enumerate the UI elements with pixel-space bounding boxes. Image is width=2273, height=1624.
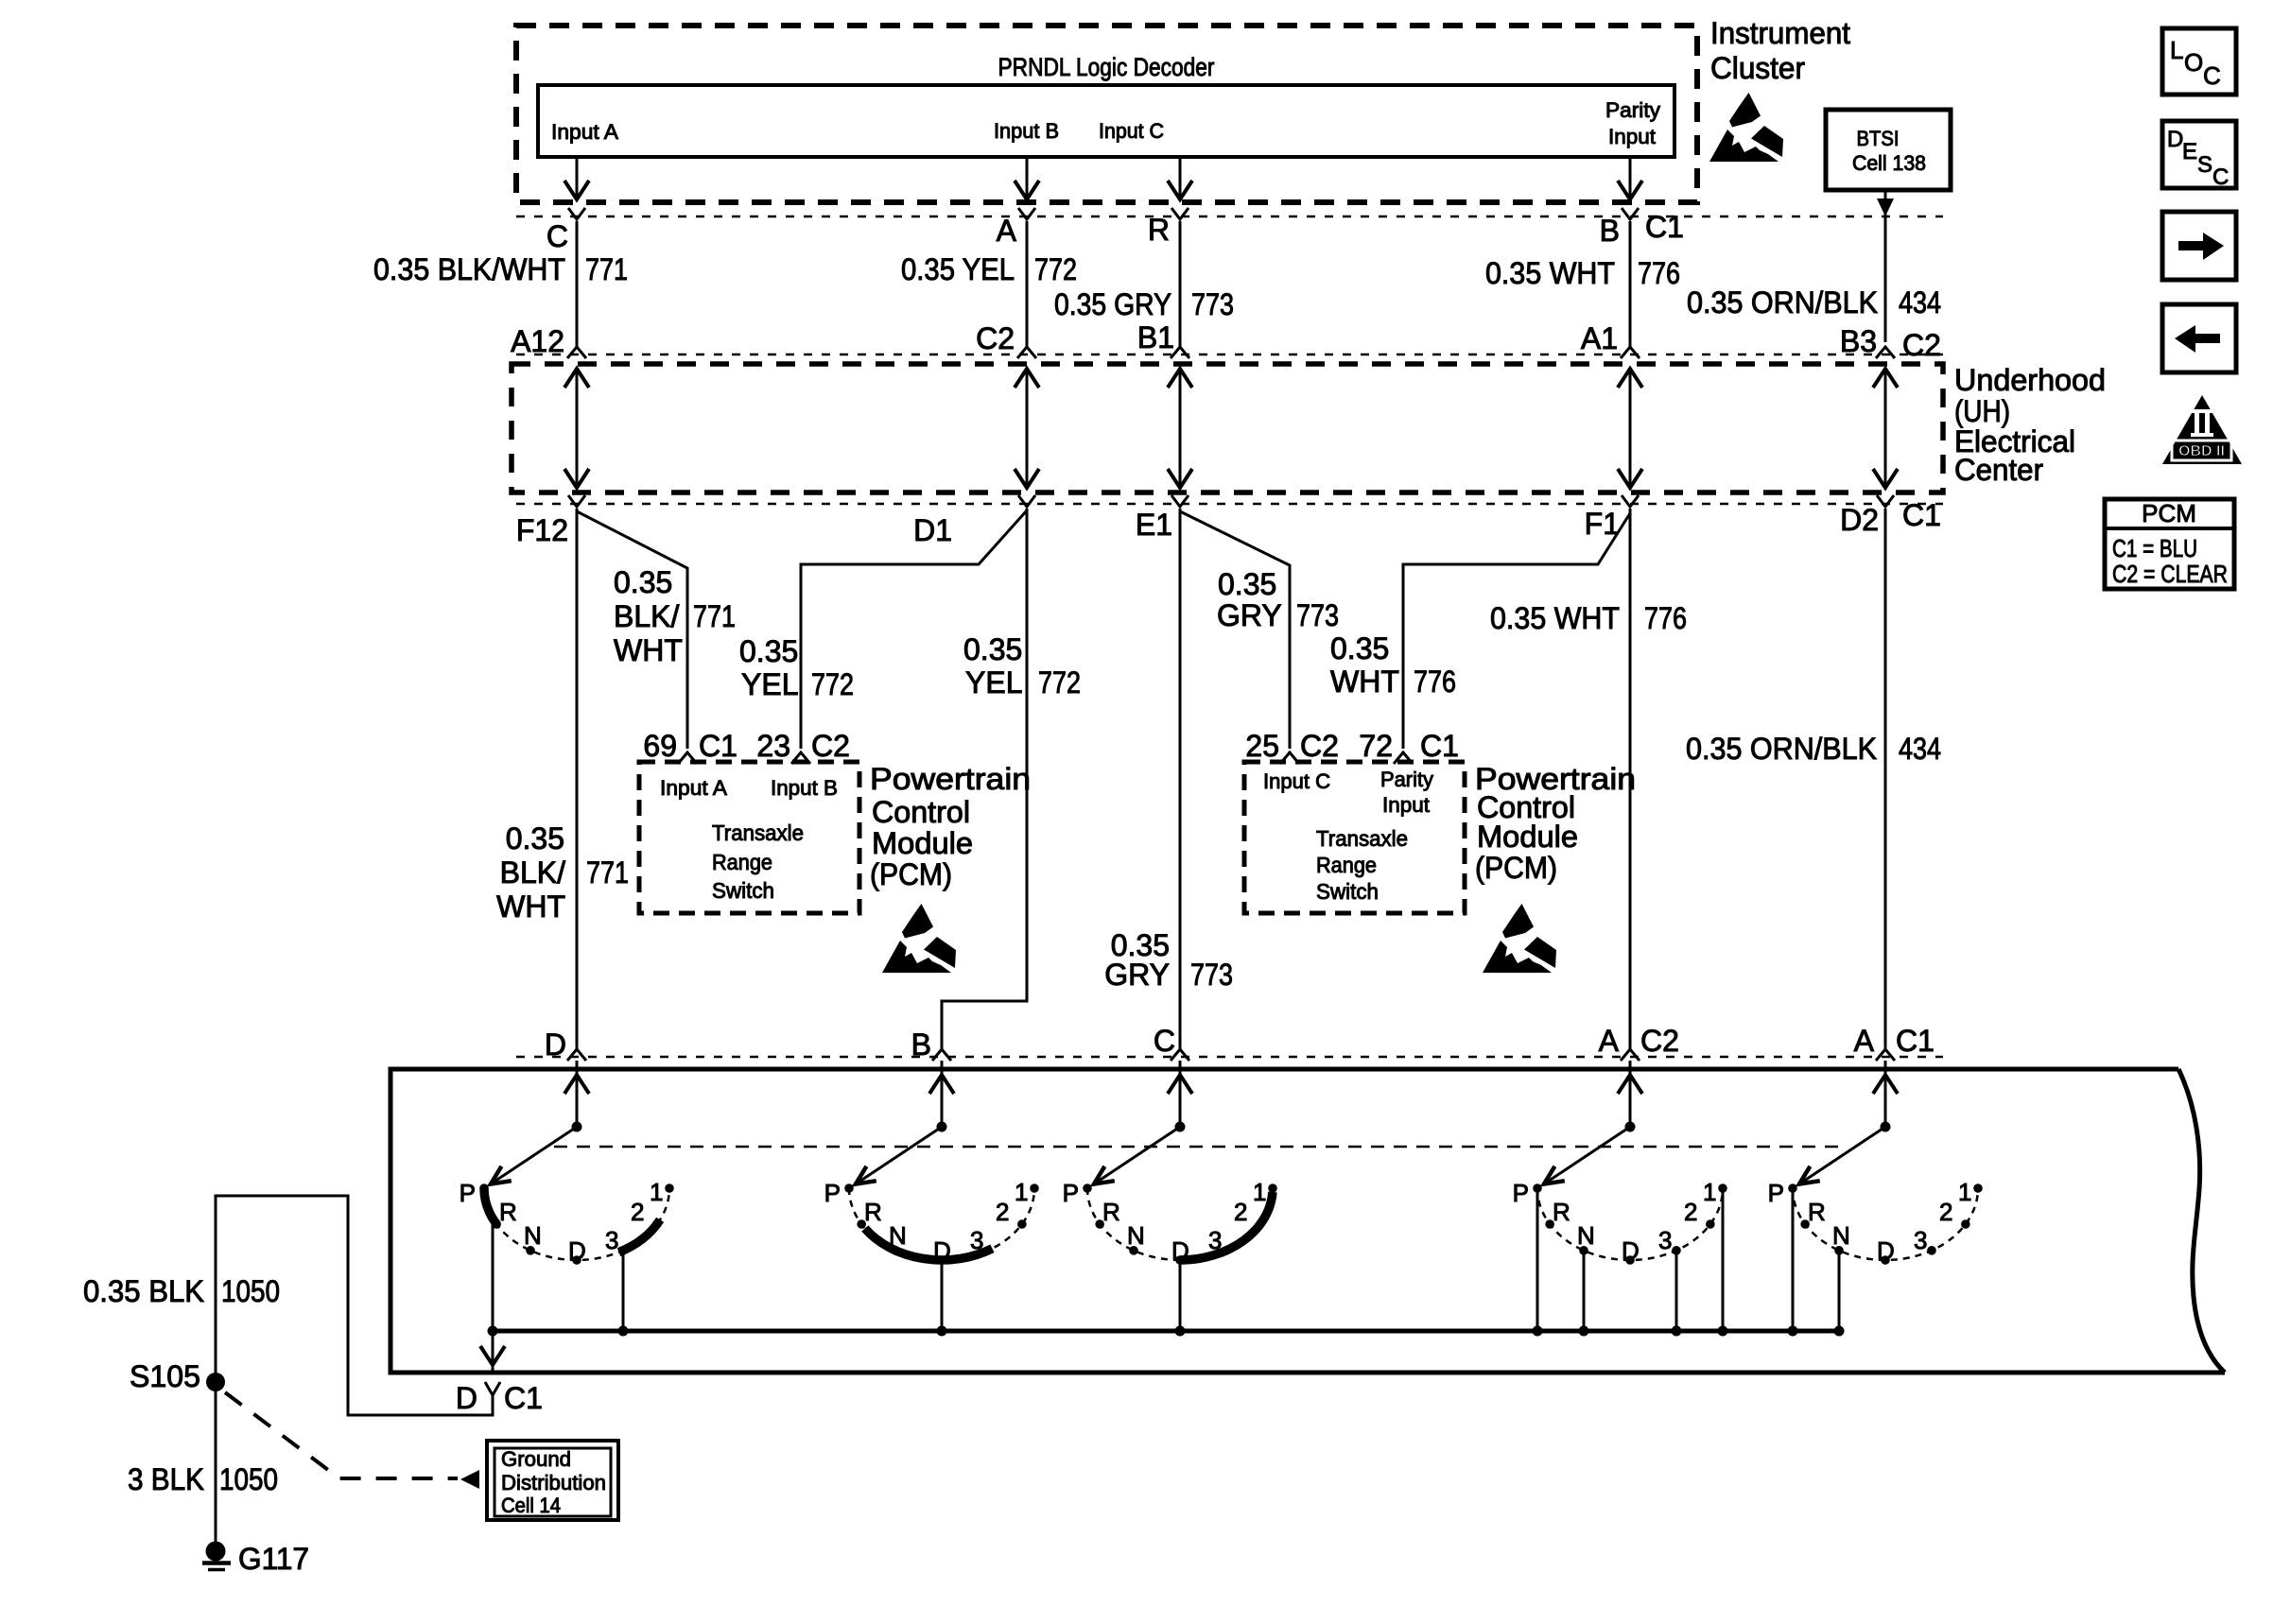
svg-text:YEL: YEL — [741, 667, 798, 701]
svg-text:P: P — [460, 1179, 476, 1207]
svg-text:0.35 BLK/WHT: 0.35 BLK/WHT — [373, 252, 565, 286]
svg-text:1: 1 — [1958, 1178, 1971, 1206]
svg-text:C: C — [2212, 164, 2229, 190]
svg-text:S: S — [2197, 152, 2212, 178]
PRNDL logic decoder box — [538, 85, 1674, 157]
wiper arrow S5 — [1799, 1127, 1885, 1184]
switch S2 (Input B contacts) — [941, 1061, 944, 1127]
svg-text:2: 2 — [996, 1198, 1009, 1226]
svg-text:0.35 WHT: 0.35 WHT — [1490, 601, 1620, 635]
ground G117 — [206, 1542, 226, 1562]
svg-text:C2: C2 — [1640, 1024, 1679, 1058]
connector row C fork at D1 — [1018, 495, 1035, 507]
svg-text:A1: A1 — [1581, 321, 1618, 355]
svg-text:A: A — [1854, 1024, 1875, 1058]
svg-text:D: D — [568, 1236, 586, 1265]
connector row B fork at B1 — [1171, 347, 1189, 358]
wire through UH electrical center x=1994 — [1884, 369, 1887, 488]
svg-text:C1: C1 — [699, 729, 737, 763]
svg-text:776: 776 — [1638, 256, 1680, 290]
switch S4 (Parity contacts) — [1629, 1061, 1632, 1127]
instrument cluster dashed box — [516, 26, 1697, 202]
svg-text:A12: A12 — [511, 324, 564, 358]
wire D2 down to switch connector A (0.35 ORN/BLK 434) — [1884, 509, 1887, 1049]
svg-text:N: N — [524, 1221, 542, 1250]
svg-text:Parity: Parity — [1380, 768, 1433, 791]
switch S1 (Input A contacts) — [576, 1061, 579, 1127]
wire E1 down to switch connector C (0.35 GRY 773) — [1179, 509, 1182, 1049]
wire Input C output of PRNDL decoder — [1179, 157, 1182, 199]
connector row D fork at A x=1724 — [1621, 1049, 1640, 1061]
svg-text:D: D — [1877, 1236, 1895, 1265]
svg-text:GRY: GRY — [1217, 598, 1282, 632]
svg-text:OBD II: OBD II — [2178, 443, 2225, 459]
svg-text:0.35 BLK: 0.35 BLK — [83, 1274, 204, 1308]
svg-text:Input C: Input C — [1099, 119, 1164, 143]
svg-text:C2 = CLEAR: C2 = CLEAR — [2112, 560, 2228, 588]
svg-text:R: R — [1808, 1198, 1826, 1226]
svg-text:N: N — [889, 1221, 907, 1250]
svg-text:PRNDL Logic Decoder: PRNDL Logic Decoder — [998, 53, 1215, 81]
svg-text:773: 773 — [1190, 958, 1233, 992]
svg-text:C1 = BLU: C1 = BLU — [2112, 534, 2197, 562]
wiper arrow S3 — [1094, 1127, 1180, 1184]
svg-text:3: 3 — [605, 1226, 618, 1254]
svg-text:C1: C1 — [1645, 210, 1684, 244]
svg-text:3: 3 — [970, 1226, 983, 1254]
svg-text:(PCM): (PCM) — [1475, 851, 1557, 885]
svg-text:0.35 WHT: 0.35 WHT — [1485, 256, 1615, 290]
wiper arrow S1 — [491, 1127, 577, 1184]
connector row C fork at F1 — [1622, 495, 1639, 507]
svg-text:773: 773 — [1296, 598, 1339, 632]
svg-text:434: 434 — [1899, 732, 1941, 766]
svg-text:F12: F12 — [516, 513, 568, 547]
svg-text:434: 434 — [1899, 285, 1941, 320]
svg-text:Input A: Input A — [660, 776, 727, 800]
svg-text:N: N — [1127, 1221, 1145, 1250]
svg-text:0.35: 0.35 — [1330, 631, 1389, 665]
svg-text:771: 771 — [586, 855, 629, 890]
transaxle range switch inputs box (PCM left) — [639, 762, 859, 913]
svg-text:771: 771 — [693, 599, 736, 633]
svg-text:Instrument: Instrument — [1710, 16, 1850, 50]
svg-text:Input B: Input B — [994, 119, 1059, 143]
svg-text:BTSI: BTSI — [1857, 127, 1900, 150]
svg-text:23: 23 — [756, 729, 790, 763]
svg-text:Switch: Switch — [1316, 879, 1379, 904]
svg-text:776: 776 — [1414, 665, 1456, 699]
svg-text:BLK/: BLK/ — [500, 855, 565, 890]
svg-text:Input C: Input C — [1263, 769, 1330, 793]
svg-text:BLK/: BLK/ — [614, 599, 679, 633]
svg-text:0.35: 0.35 — [1218, 567, 1276, 601]
svg-text:772: 772 — [811, 667, 854, 701]
svg-text:Input A: Input A — [551, 120, 618, 144]
svg-text:R: R — [1148, 213, 1170, 247]
svg-text:Switch: Switch — [712, 878, 774, 903]
ESD symbol (PCM right) — [1483, 904, 1556, 973]
PCM pin 69 C1 — [678, 752, 697, 764]
svg-text:D: D — [1622, 1236, 1640, 1265]
svg-text:1050: 1050 — [219, 1462, 278, 1496]
svg-text:Input: Input — [1382, 793, 1430, 817]
legend symbol LOC box — [2162, 28, 2236, 95]
svg-text:72: 72 — [1359, 729, 1393, 763]
svg-text:E: E — [2182, 139, 2197, 164]
svg-text:GRY: GRY — [1104, 958, 1170, 992]
svg-text:771: 771 — [585, 252, 628, 286]
connector row A dashed line — [516, 216, 1943, 218]
connector row B fork at A1 — [1621, 347, 1640, 358]
svg-text:Range: Range — [712, 850, 772, 874]
splice S105 — [206, 1373, 225, 1391]
svg-text:Cell 14: Cell 14 — [501, 1494, 561, 1517]
wire through UH electrical center x=1724 — [1629, 369, 1632, 488]
wire branch D1 to PCM pin 23 — [801, 510, 1027, 749]
legend symbol DESC box — [2162, 121, 2236, 188]
connector row D dashed line — [516, 1056, 1943, 1059]
svg-text:Range: Range — [1316, 853, 1377, 877]
svg-text:O: O — [2184, 48, 2203, 77]
svg-text:0.35: 0.35 — [963, 632, 1022, 666]
svg-text:773: 773 — [1191, 287, 1234, 321]
svg-text:Transaxle: Transaxle — [1316, 826, 1408, 851]
connector row A fork at R — [1171, 208, 1189, 219]
svg-text:69: 69 — [643, 729, 677, 763]
wire through UH electrical center x=1248 — [1179, 369, 1182, 488]
wire F12 down to switch connector D (0.35 BLK/WHT 771) — [576, 509, 579, 1049]
connector row D fork at B x=996 — [932, 1049, 951, 1061]
svg-text:L: L — [2170, 36, 2183, 64]
wiper arrow S2 — [856, 1127, 942, 1184]
svg-text:0.35 GRY: 0.35 GRY — [1054, 287, 1171, 321]
svg-text:D: D — [545, 1028, 566, 1062]
wire Parity output of PRNDL decoder — [1629, 157, 1632, 199]
svg-text:YEL: YEL — [965, 665, 1022, 700]
svg-text:P: P — [824, 1179, 841, 1207]
svg-text:Input: Input — [1608, 125, 1656, 148]
connector row A fork at A — [1018, 208, 1035, 219]
svg-text:C: C — [547, 219, 568, 253]
svg-text:R: R — [1553, 1198, 1570, 1226]
wire F1 down to switch connector A (0.35 WHT 776) — [1629, 509, 1632, 1049]
wire branch E1 to PCM pin 25 — [1180, 511, 1290, 749]
connector row B dashed line — [516, 354, 1943, 356]
BTSI output arrowhead — [1877, 199, 1894, 216]
ground bus inside switch — [493, 1329, 1839, 1334]
svg-text:C2: C2 — [1300, 729, 1339, 763]
svg-text:C1: C1 — [1902, 498, 1941, 532]
svg-text:3: 3 — [1914, 1226, 1927, 1254]
svg-text:C1: C1 — [504, 1381, 543, 1415]
svg-text:776: 776 — [1644, 601, 1687, 635]
ground exit wire with arrow — [492, 1331, 495, 1371]
PCM pin 72 C1 — [1394, 752, 1413, 764]
wire harness segment 771 BLK/WHT — [576, 221, 579, 347]
wire through UH electrical center x=610 — [576, 369, 579, 488]
svg-text:0.35: 0.35 — [739, 634, 798, 668]
connector row A fork at C — [568, 208, 585, 219]
wire 0.35 BLK 1050 to S105 — [216, 1196, 493, 1544]
connector row D fork at A x=1994 — [1876, 1049, 1895, 1061]
svg-text:B1: B1 — [1137, 320, 1174, 354]
svg-text:1: 1 — [650, 1178, 663, 1206]
svg-text:Ground: Ground — [501, 1447, 571, 1471]
svg-text:B3: B3 — [1840, 324, 1877, 358]
wire Input B output of PRNDL decoder — [1026, 157, 1029, 199]
svg-text:P: P — [1768, 1179, 1784, 1207]
connector row B fork at C2 — [1017, 347, 1036, 358]
connector row B fork at B3 — [1876, 347, 1895, 358]
svg-text:C2: C2 — [1902, 328, 1941, 362]
svg-text:PCM: PCM — [2142, 499, 2196, 527]
svg-text:2: 2 — [1234, 1198, 1247, 1226]
ground distribution cell 14 box — [487, 1441, 618, 1520]
svg-text:P: P — [1513, 1179, 1529, 1207]
svg-text:D2: D2 — [1840, 503, 1879, 537]
svg-text:B: B — [911, 1028, 931, 1062]
svg-text:S105: S105 — [130, 1359, 200, 1393]
svg-text:P: P — [1063, 1179, 1079, 1207]
svg-text:3 BLK: 3 BLK — [128, 1462, 204, 1496]
svg-text:Control: Control — [872, 795, 970, 829]
BTSI Cell 138 box — [1826, 110, 1951, 190]
svg-text:N: N — [1832, 1221, 1850, 1250]
svg-text:1: 1 — [1703, 1178, 1716, 1206]
svg-text:WHT: WHT — [496, 890, 565, 924]
svg-text:R: R — [1102, 1198, 1120, 1226]
svg-text:D: D — [2167, 127, 2183, 152]
wire Input A output of PRNDL decoder — [576, 157, 579, 199]
svg-text:A: A — [1599, 1024, 1620, 1058]
connector D C1 below switch box — [485, 1382, 500, 1395]
svg-text:Cluster: Cluster — [1710, 51, 1805, 85]
svg-text:(PCM): (PCM) — [870, 857, 952, 891]
svg-text:1: 1 — [1253, 1178, 1266, 1206]
svg-text:2: 2 — [1684, 1198, 1697, 1226]
ESD symbol (PCM left) — [882, 904, 956, 973]
svg-text:3: 3 — [1208, 1226, 1222, 1254]
switch S5 (BTSI contacts) — [1884, 1061, 1887, 1127]
wire harness segment 773 GRY — [1179, 221, 1182, 347]
svg-text:Input B: Input B — [771, 776, 838, 800]
svg-text:C2: C2 — [811, 729, 850, 763]
connector row A fork at B — [1622, 208, 1639, 219]
svg-text:Center: Center — [1954, 453, 2043, 487]
PCM pin 25 C2 — [1280, 752, 1299, 764]
legend symbol left-arrow box — [2162, 304, 2236, 372]
svg-text:C: C — [1154, 1024, 1175, 1058]
svg-text:0.35: 0.35 — [614, 565, 672, 599]
connector row C fork at D2 — [1877, 495, 1894, 507]
svg-text:Transaxle: Transaxle — [712, 821, 804, 845]
svg-text:(UH): (UH) — [1954, 394, 2010, 428]
connector row B fork at A12 — [567, 347, 586, 358]
svg-text:1050: 1050 — [221, 1274, 280, 1308]
svg-text:Powertrain: Powertrain — [870, 762, 1031, 796]
svg-text:B: B — [1600, 214, 1620, 248]
connector row C fork at E1 — [1171, 495, 1189, 507]
wire BTSI to connector C2 (0.35 ORN/BLK 434) — [1884, 190, 1887, 342]
wiper arrow S4 — [1544, 1127, 1630, 1184]
svg-text:D: D — [456, 1381, 477, 1415]
dashed reference wire S105 to ground distribution — [225, 1392, 458, 1478]
connector row D fork at C x=1248 — [1171, 1049, 1189, 1061]
svg-text:G117: G117 — [238, 1542, 309, 1576]
svg-text:772: 772 — [1038, 665, 1081, 700]
Underhood (UH) Electrical Center dashed box — [512, 364, 1943, 492]
ESD symbol (instrument cluster) — [1709, 93, 1783, 162]
svg-text:Module: Module — [872, 826, 973, 860]
svg-text:772: 772 — [1034, 252, 1077, 286]
svg-text:0.35 YEL: 0.35 YEL — [901, 252, 1015, 286]
legend symbol OBD II triangle — [2162, 395, 2242, 464]
svg-text:N: N — [1577, 1221, 1595, 1250]
connector row C dashed line — [516, 503, 1943, 506]
svg-text:Module: Module — [1477, 820, 1578, 854]
svg-text:1: 1 — [1015, 1178, 1028, 1206]
wire through UH electrical center x=1086 — [1026, 369, 1029, 488]
connector row C fork at F12 — [568, 495, 585, 507]
svg-text:Parity: Parity — [1605, 98, 1660, 122]
svg-text:WHT: WHT — [1330, 665, 1399, 699]
svg-text:25: 25 — [1245, 729, 1279, 763]
svg-text:A: A — [997, 214, 1017, 248]
wire harness segment 776 WHT — [1629, 221, 1632, 347]
svg-text:WHT: WHT — [614, 633, 683, 667]
svg-text:2: 2 — [1939, 1198, 1952, 1226]
svg-text:C: C — [2203, 61, 2221, 90]
svg-text:R: R — [499, 1198, 517, 1226]
svg-text:R: R — [864, 1198, 882, 1226]
wire branch F1 to PCM pin 72 — [1403, 513, 1630, 749]
svg-text:C1: C1 — [1896, 1024, 1935, 1058]
wire harness segment 772 YEL — [1026, 221, 1029, 347]
legend symbol right-arrow box — [2162, 212, 2236, 280]
switch common dashed rail — [554, 1146, 1846, 1149]
svg-text:0.35 ORN/BLK: 0.35 ORN/BLK — [1686, 732, 1877, 766]
PCM pin 23 C2 — [791, 752, 810, 764]
svg-text:0.35 ORN/BLK: 0.35 ORN/BLK — [1687, 285, 1878, 320]
svg-text:C2: C2 — [976, 321, 1015, 355]
transaxle range switch outline box with torn right edge — [390, 1069, 2225, 1373]
svg-text:3: 3 — [1658, 1226, 1672, 1254]
svg-text:2: 2 — [631, 1198, 644, 1226]
svg-text:C1: C1 — [1420, 729, 1459, 763]
svg-text:Cell 138: Cell 138 — [1852, 151, 1926, 175]
switch S3 (Input C contacts) — [1179, 1061, 1182, 1127]
svg-text:0.35: 0.35 — [506, 821, 564, 855]
svg-text:Underhood: Underhood — [1954, 363, 2106, 397]
connector row D fork at D x=610 — [567, 1049, 586, 1061]
svg-text:Distribution: Distribution — [501, 1471, 606, 1494]
transaxle range switch inputs box (PCM right) — [1244, 762, 1465, 913]
svg-text:E1: E1 — [1136, 508, 1172, 542]
wire branch F12 to PCM pin 69 — [577, 511, 687, 749]
legend box PCM connector colors — [2105, 499, 2234, 589]
wire D1 down with jog (0.35 YEL 772) — [942, 509, 1027, 1049]
svg-text:D1: D1 — [913, 513, 952, 547]
